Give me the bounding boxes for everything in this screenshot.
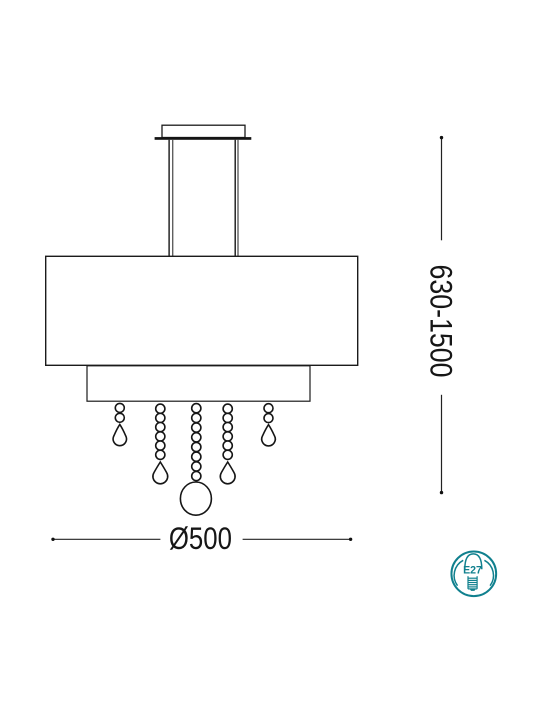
bead strand 2 — [153, 404, 168, 484]
canopy box — [162, 125, 245, 137]
right rod — [235, 140, 238, 256]
width dim end dots — [51, 538, 54, 541]
width dimension line — [53, 538, 351, 540]
svg-text:630-1500: 630-1500 — [423, 265, 459, 378]
diffuser box — [87, 366, 310, 401]
E27 badge circle — [451, 551, 496, 596]
height dimension line — [441, 138, 443, 493]
E27 shine arc left — [454, 560, 463, 585]
bead strand 4 — [220, 404, 235, 484]
height dim end dots — [440, 136, 443, 139]
svg-text:Ø500: Ø500 — [169, 521, 232, 556]
drum shade — [46, 256, 358, 365]
bead strand 5 — [262, 404, 276, 446]
left rod — [169, 140, 173, 256]
E27 screw tip — [470, 590, 476, 591]
E27 screw base — [468, 576, 477, 589]
bead strand 1 — [113, 403, 126, 445]
svg-text:E27: E27 — [463, 564, 482, 576]
E27 bulb dome — [465, 554, 482, 569]
canopy plate — [155, 137, 252, 140]
bead strand 3 (center) — [180, 404, 211, 516]
E27 shine arc right — [484, 560, 493, 585]
